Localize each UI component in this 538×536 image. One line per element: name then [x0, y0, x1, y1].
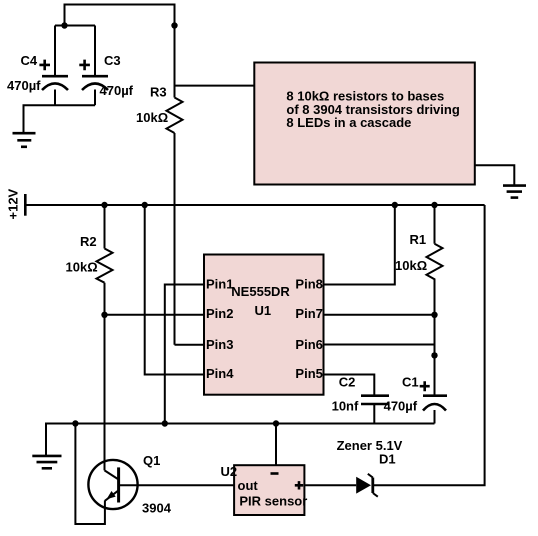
wire block to ground — [475, 165, 515, 185]
wire R2 top lead — [104, 205, 106, 249]
transistor Q1 — [88, 460, 137, 509]
svg-text:R3: R3 — [150, 84, 167, 99]
svg-text:470µf: 470µf — [7, 78, 41, 93]
svg-text:D1: D1 — [379, 451, 396, 466]
PIR minus terminal — [271, 472, 279, 475]
wire R2 bottom lead — [104, 283, 106, 315]
PIR sensor U2 box — [234, 465, 304, 515]
wire R3 bottom lead down to Pin3 level (crosses +12V rail, no junction) — [174, 133, 176, 345]
capacitor C3 — [82, 26, 108, 106]
svg-text:Pin3: Pin3 — [206, 337, 233, 352]
wire main ground line — [46, 424, 435, 456]
wire rail to Pin4 — [145, 205, 204, 375]
svg-text:out: out — [238, 478, 259, 493]
wire Pin5 to C2 — [324, 375, 375, 396]
svg-text:470µf: 470µf — [384, 398, 418, 413]
svg-text:R2: R2 — [80, 234, 97, 249]
capacitor C4 — [42, 26, 68, 106]
svg-text:470µf: 470µf — [100, 83, 134, 98]
wire Pin8 to rail — [324, 205, 395, 285]
ground (top right) — [503, 186, 526, 198]
resistor R3 — [167, 98, 183, 134]
capacitor C1 plus sign — [420, 381, 430, 391]
svg-text:Pin8: Pin8 — [295, 276, 322, 291]
svg-text:U1: U1 — [255, 303, 272, 318]
node junction at caps top — [61, 22, 67, 28]
wire capacitor bottom bus — [24, 105, 96, 133]
svg-text:Pin2: Pin2 — [206, 306, 233, 321]
wire Pin1 to ground line — [165, 285, 204, 424]
node junction at R3 top — [171, 22, 177, 28]
svg-text:NE555DR: NE555DR — [231, 284, 290, 299]
wire Pin7 to R1 line — [324, 314, 435, 316]
+12V supply terminal bar — [24, 194, 27, 216]
resistor R2 — [97, 249, 113, 283]
node R1 / Pin7 junction — [431, 312, 437, 318]
PIR plus terminal — [295, 481, 303, 489]
svg-text:Pin6: Pin6 — [295, 337, 322, 352]
op-amp U1 NE555DR box — [204, 255, 324, 395]
node R2 / Pin2 / collector junction — [101, 312, 107, 318]
svg-text:Pin4: Pin4 — [206, 366, 234, 381]
ground (top left) — [13, 133, 36, 147]
wire top feed from caps to R3 — [65, 5, 175, 27]
wire +12V rail — [25, 204, 484, 206]
wire branch R3 node to block — [175, 85, 255, 87]
svg-text:Pin7: Pin7 — [295, 306, 322, 321]
svg-text:3904: 3904 — [142, 501, 172, 516]
svg-text:10kΩ: 10kΩ — [66, 259, 98, 274]
wire Q1 collector lead — [104, 315, 106, 471]
wire C2 bottom lead — [373, 404, 375, 424]
svg-text:Q1: Q1 — [143, 453, 160, 468]
capacitor C1 — [423, 396, 447, 424]
svg-text:+12V: +12V — [6, 188, 21, 219]
wire Q1 emitter loop to ground line — [75, 424, 105, 525]
svg-text:R1: R1 — [410, 232, 427, 247]
node ground line / emitter loop — [72, 420, 78, 426]
svg-text:C1: C1 — [402, 374, 419, 389]
node rail/Pin8 line — [392, 202, 398, 208]
svg-text:Pin5: Pin5 — [295, 366, 322, 381]
svg-text:8 LEDs in a cascade: 8 LEDs in a cascade — [286, 115, 411, 130]
capacitor C3 plus sign — [79, 60, 90, 71]
svg-text:C2: C2 — [339, 374, 356, 389]
node ground line / Pin1 — [162, 420, 168, 426]
svg-text:U2: U2 — [221, 464, 238, 479]
node ground line / PIR minus — [273, 420, 279, 426]
svg-text:10kΩ: 10kΩ — [395, 258, 427, 273]
wire Pin2 to R2/collector — [105, 314, 205, 316]
svg-text:10nf: 10nf — [332, 398, 359, 413]
wire Pin3 to R3 line — [175, 344, 205, 346]
node C1 top junction — [431, 352, 437, 358]
svg-text:10kΩ: 10kΩ — [136, 110, 168, 125]
svg-text:PIR sensor: PIR sensor — [239, 493, 307, 508]
node rail/R2 — [101, 202, 107, 208]
wire R1 top lead — [434, 205, 436, 244]
svg-text:C3: C3 — [104, 53, 121, 68]
node rail/R1 — [431, 202, 437, 208]
capacitor C2 — [361, 396, 389, 404]
resistor R1 — [427, 244, 443, 284]
zener diode D1 — [356, 474, 378, 497]
wire PIR minus to ground line — [275, 424, 277, 466]
svg-text:Pin1: Pin1 — [206, 276, 233, 291]
wire R1 bottom lead down to C1 — [434, 284, 436, 396]
block: 8 resistors / transistors / LEDs note box — [254, 63, 474, 185]
wire R3 top lead — [174, 26, 176, 98]
wire right rail from +12V to zener — [373, 205, 485, 485]
ground (middle left) — [32, 456, 61, 468]
wire PIR plus to zener anode — [304, 484, 356, 486]
wire Pin6 to R1 line — [324, 344, 435, 346]
svg-text:C4: C4 — [21, 53, 38, 68]
wire capacitor top bus — [55, 25, 95, 27]
node rail/Pin4 line — [142, 202, 148, 208]
capacitor C4 plus sign — [39, 60, 50, 71]
wire Q1 base to PIR out — [119, 484, 235, 486]
